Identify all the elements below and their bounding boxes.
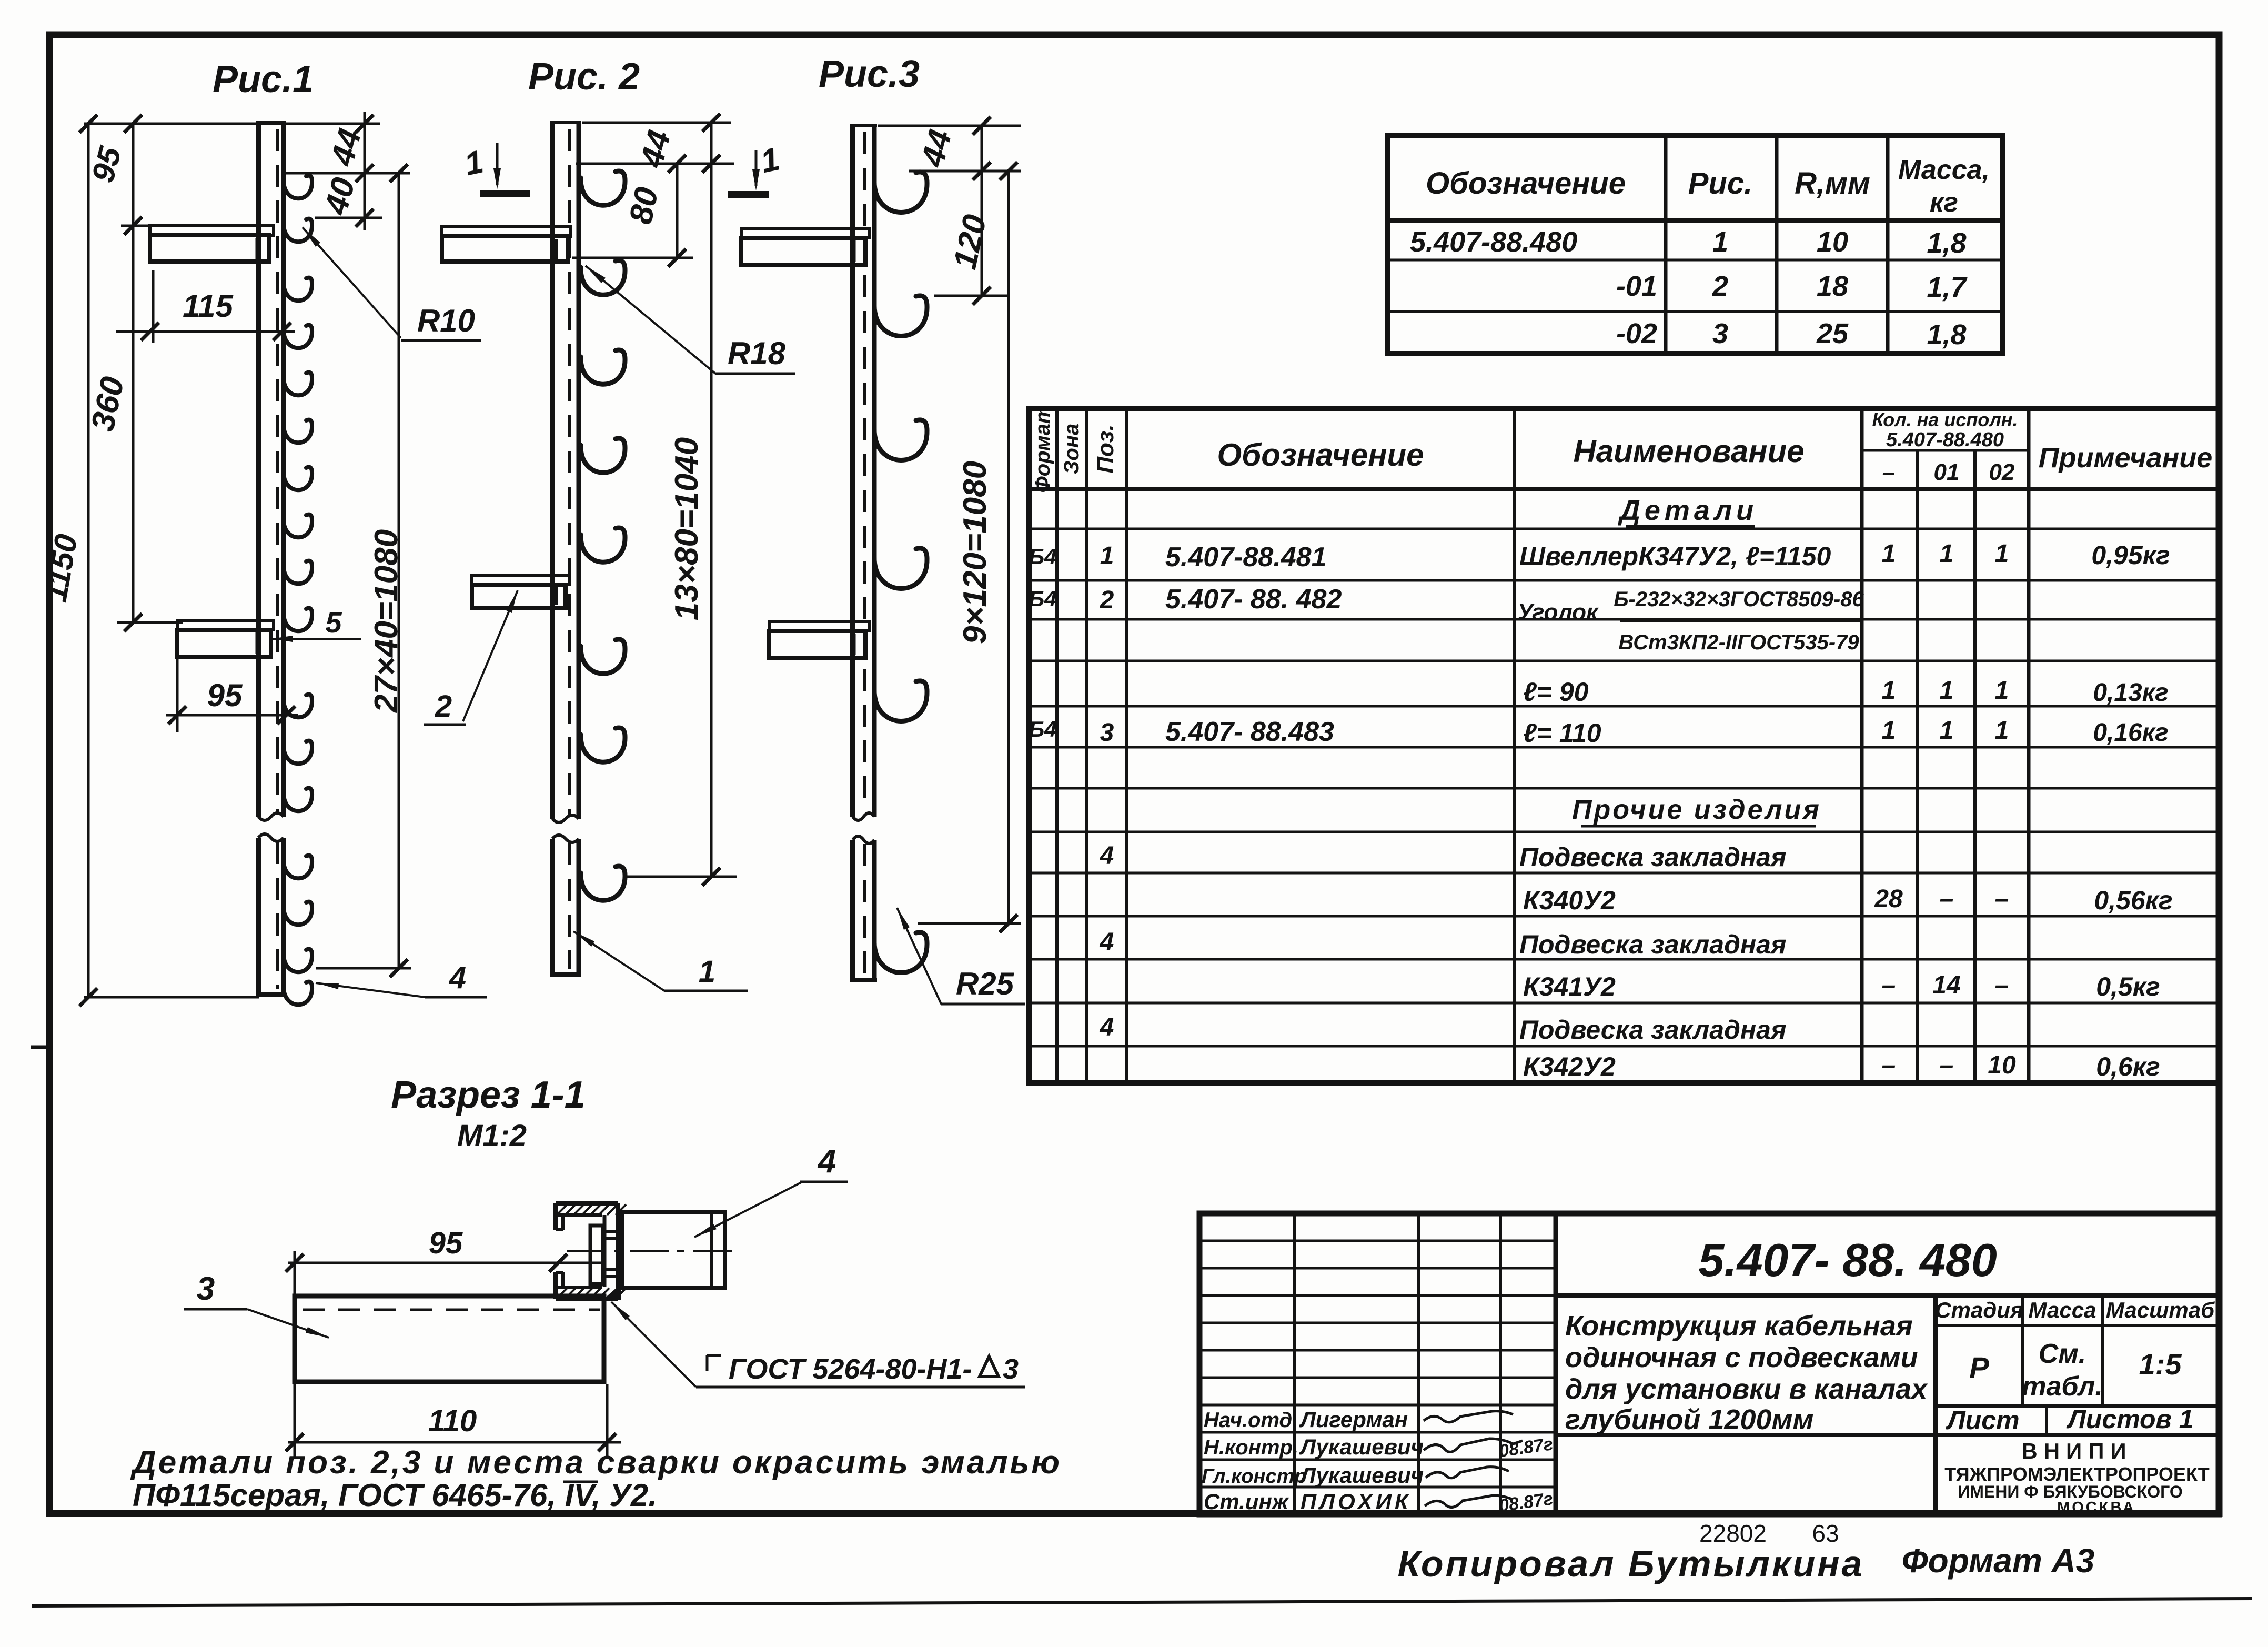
svg-text:R25: R25 (956, 966, 1015, 1001)
spec row 1: channel K347U2 (1029, 540, 2170, 573)
svg-text:ℓ= 90: ℓ= 90 (1523, 677, 1589, 707)
section mark 1-1 (right) (728, 141, 783, 195)
svg-text:–: – (1882, 459, 1895, 485)
svg-text:ИМЕНИ Ф БЯКУБОВСКОГО: ИМЕНИ Ф БЯКУБОВСКОГО (1958, 1482, 2183, 1501)
fig1 label 4 leader (316, 983, 487, 997)
title block signature rows labels (1202, 1409, 1307, 1514)
svg-text:4: 4 (1100, 1013, 1114, 1041)
svg-text:R18: R18 (728, 336, 786, 371)
svg-text:1: 1 (1712, 226, 1728, 258)
svg-text:для установки в каналах: для установки в каналах (1565, 1373, 1928, 1405)
svg-text:1: 1 (1940, 677, 1954, 705)
svg-text:Лукашевич: Лукашевич (1299, 1434, 1424, 1459)
svg-text:18: 18 (1817, 270, 1848, 302)
fig1 dimension 115 (116, 270, 295, 343)
svg-text:5.407- 88.483: 5.407- 88.483 (1165, 717, 1334, 747)
svg-text:Кол. на исполн.: Кол. на исполн. (1872, 409, 2018, 430)
svg-text:1: 1 (1995, 717, 2009, 745)
svg-text:1: 1 (1882, 677, 1896, 705)
svg-text:Копировал Бутылкина: Копировал Бутылкина (1398, 1543, 1864, 1584)
spec row Детали (1618, 495, 1758, 526)
svg-text:95: 95 (207, 678, 243, 713)
svg-text:5.407-88.480: 5.407-88.480 (1410, 226, 1577, 258)
fig1 bracket 2 (pos.3): angle bracket (уголок) (177, 620, 274, 657)
title block grid (1199, 1213, 2219, 1514)
svg-text:Ст.инж: Ст.инж (1204, 1489, 1289, 1514)
title block mass value См.табл. (2022, 1339, 2102, 1402)
fig1: channel post (side view) (256, 123, 286, 995)
spec row 4c: Подвеска закладная (1100, 1013, 1787, 1045)
svg-text:Р: Р (1969, 1351, 1989, 1384)
weld designation leader (611, 1302, 1025, 1387)
section label 3 leader (184, 1309, 329, 1338)
title block signature rows names (1299, 1407, 1424, 1514)
note line 2 (133, 1478, 657, 1513)
svg-text:0,6кг: 0,6кг (2096, 1052, 2160, 1081)
svg-text:5.407-88.480: 5.407-88.480 (1886, 429, 2004, 451)
svg-text:10: 10 (1988, 1051, 2016, 1079)
spec header Кол. на исполн. (1872, 409, 2018, 485)
svg-text:1: 1 (1882, 717, 1896, 745)
top-right table row 2 (1616, 270, 1968, 303)
weld designation text ГОСТ 5264-80-Н1-∆3 (707, 1353, 1019, 1385)
svg-text:Конструкция кабельная: Конструкция кабельная (1565, 1310, 1913, 1342)
svg-text:Б-232×32×3ГОСТ8509-86: Б-232×32×3ГОСТ8509-86 (1614, 588, 1864, 611)
svg-text:Масштаб: Масштаб (2106, 1298, 2215, 1322)
section dim 95 (286, 1251, 605, 1457)
svg-text:Формат А3: Формат А3 (1902, 1542, 2095, 1580)
hooks fig2 (R18) (581, 171, 625, 900)
svg-text:Лукашевич: Лукашевич (1299, 1463, 1424, 1488)
stamp number 22802 63 (1699, 1520, 1839, 1547)
svg-text:Н.контр.: Н.контр. (1204, 1436, 1298, 1459)
fig3 bracket 2 (pos.3): angle bracket (уголок) (769, 621, 869, 658)
specification table grid (1029, 408, 2219, 1083)
svg-text:Стадия: Стадия (1935, 1298, 2023, 1322)
svg-text:9×120=1080: 9×120=1080 (957, 461, 993, 644)
svg-text:5.407- 88. 482: 5.407- 88. 482 (1165, 584, 1342, 615)
svg-text:К342У2: К342У2 (1523, 1052, 1616, 1081)
svg-text:1: 1 (1940, 540, 1954, 568)
fig2 dims 44 / 80 (572, 114, 737, 886)
svg-text:0,56кг: 0,56кг (2094, 886, 2172, 915)
svg-text:Детали поз. 2,3 и места сварк: Детали поз. 2,3 и места сварки окрасить … (130, 1444, 1062, 1481)
svg-text:Поз.: Поз. (1093, 424, 1118, 473)
fig1 dimension 1150 vertical line (79, 115, 380, 1006)
svg-text:Уголок: Уголок (1517, 599, 1599, 625)
spec row К340У2 (1523, 885, 2173, 915)
spec row Прочие изделия (1572, 795, 1821, 826)
svg-text:ТЯЖПРОМЭЛЕКТРОПРОЕКТ: ТЯЖПРОМЭЛЕКТРОПРОЕКТ (1944, 1463, 2210, 1485)
svg-text:Масса: Масса (2029, 1298, 2096, 1322)
svg-text:–: – (1995, 971, 2009, 999)
fig2 label 2 leader (424, 590, 518, 725)
svg-text:Гл.констр: Гл.констр (1202, 1465, 1307, 1488)
fig1 label R10 leader (303, 227, 481, 340)
fig1 dimension 95 top / 360 line (117, 115, 183, 631)
svg-text:–: – (1940, 1051, 1954, 1079)
fig2 label 1 leader (573, 931, 748, 991)
svg-text:4: 4 (1100, 842, 1114, 870)
svg-text:02: 02 (1989, 459, 2015, 485)
fig3: channel post (side view) (850, 126, 877, 980)
svg-text:Подвеска закладная: Подвеска закладная (1519, 930, 1786, 959)
title block signatures (squiggles) (1424, 1411, 1523, 1508)
svg-text:95: 95 (429, 1226, 463, 1260)
spec row 4b: Подвеска закладная (1100, 928, 1787, 959)
section dim 110 (286, 1384, 621, 1459)
spec row К342У2 (1523, 1051, 2160, 1081)
svg-text:Формат: Формат (1031, 405, 1054, 493)
spec row l=90 (1523, 677, 2169, 707)
svg-text:4: 4 (817, 1143, 836, 1180)
svg-text:ШвеллерК347У2, ℓ=1150: ШвеллерК347У2, ℓ=1150 (1519, 541, 1831, 571)
hooks fig3 (R25) (874, 172, 927, 973)
svg-text:5.407- 88. 480: 5.407- 88. 480 (1698, 1234, 1997, 1286)
svg-text:Обозначение: Обозначение (1426, 166, 1626, 200)
spec row 4a: Подвеска закладная (1100, 842, 1787, 872)
svg-text:2: 2 (1712, 270, 1728, 302)
svg-text:1,7: 1,7 (1927, 272, 1968, 303)
fig2 bracket 2 (pos.3): angle bracket (уголок) (472, 575, 569, 608)
svg-text:3: 3 (1100, 719, 1114, 747)
fig2 bracket 1 (pos.2): angle bracket (уголок) (442, 227, 571, 262)
svg-text:0,95кг: 0,95кг (2091, 540, 2170, 570)
svg-text:1: 1 (1940, 717, 1954, 745)
fig1 dimension 27x40=1080 line (316, 164, 411, 977)
section label 4 leader (694, 1182, 848, 1237)
svg-text:Листов 1: Листов 1 (2067, 1404, 2194, 1434)
svg-text:ПЛОХИК: ПЛОХИК (1301, 1489, 1412, 1514)
fig2 label R18 leader (586, 266, 795, 374)
svg-text:4: 4 (449, 961, 466, 995)
svg-text:2: 2 (435, 689, 452, 724)
svg-text:80: 80 (622, 184, 666, 227)
svg-text:Зона: Зона (1060, 424, 1083, 475)
svg-text:ВСт3КП2-IIГОСТ535-79: ВСт3КП2-IIГОСТ535-79 (1618, 631, 1859, 654)
svg-text:01: 01 (1934, 459, 1960, 485)
svg-text:1: 1 (1995, 677, 2009, 705)
fig3 label R25 leader (897, 908, 1025, 1004)
top-right table: mass per variant (1388, 135, 2003, 354)
spec row 2: angle part (1029, 584, 1864, 654)
svg-text:1:5: 1:5 (2139, 1348, 2182, 1381)
spec row К341У2 (1523, 971, 2160, 1001)
section hatching of channel flanges (557, 1204, 626, 1299)
svg-text:Б4: Б4 (1029, 586, 1056, 611)
svg-text:1: 1 (1882, 540, 1896, 568)
top-right table header texts (1426, 155, 1990, 218)
svg-text:2: 2 (1100, 586, 1114, 614)
fig1 dimensions 44 and 40 (282, 112, 410, 230)
section suspension hook plate inside channel (590, 1226, 622, 1284)
fig1 dimension 95 (middle, bracket offset) (166, 659, 298, 732)
svg-text:кг: кг (1930, 187, 1958, 218)
top-right table row 1 (1410, 226, 1967, 259)
svg-text:ГОСТ 5264-80-Н1-: ГОСТ 5264-80-Н1- (729, 1353, 972, 1385)
svg-text:-02: -02 (1616, 318, 1657, 349)
title block Стадия/Масса/Масштаб headers (1935, 1298, 2215, 1322)
svg-text:Рис. 2: Рис. 2 (528, 56, 640, 98)
svg-text:См.: См. (2039, 1339, 2086, 1369)
svg-text:ВНИПИ: ВНИПИ (2021, 1439, 2132, 1463)
svg-text:Разрез 1-1: Разрез 1-1 (391, 1074, 586, 1116)
title block Лист / Листов 1 (1946, 1404, 2193, 1435)
title block organization ВНИПИ (1944, 1439, 2210, 1516)
svg-text:К341У2: К341У2 (1523, 972, 1616, 1001)
svg-text:Рис.: Рис. (1688, 166, 1753, 200)
svg-text:Прочие изделия: Прочие изделия (1572, 795, 1821, 825)
top-right table row 3 (1616, 318, 1967, 350)
svg-text:Детали: Детали (1618, 495, 1758, 526)
svg-text:1: 1 (1100, 542, 1114, 570)
svg-text:Лист: Лист (1946, 1405, 2019, 1435)
section mark 1-1 (left) (461, 143, 530, 194)
svg-text:-01: -01 (1616, 270, 1657, 302)
svg-text:3: 3 (1003, 1353, 1019, 1385)
left margin centering tick (31, 1046, 51, 1049)
spec row 3: l=110 (1029, 717, 2168, 748)
svg-text:1: 1 (699, 955, 715, 989)
svg-text:Рис.1: Рис.1 (213, 58, 314, 101)
svg-text:табл.: табл. (2022, 1371, 2102, 1402)
svg-text:1: 1 (1995, 540, 2009, 568)
fig3 bracket 1 (pos.2): angle bracket (уголок) (741, 228, 869, 265)
section weld point (603, 1284, 621, 1300)
svg-text:одиночная с подвесками: одиночная с подвесками (1565, 1342, 1918, 1373)
svg-text:К340У2: К340У2 (1523, 886, 1616, 915)
svg-text:Масса,: Масса, (1898, 155, 1990, 185)
svg-text:28: 28 (1874, 885, 1903, 913)
svg-text:3: 3 (197, 1271, 215, 1307)
svg-text:5: 5 (325, 606, 342, 639)
svg-text:Рис.3: Рис.3 (819, 53, 920, 95)
section channel cross-section (part 1) (556, 1203, 618, 1299)
svg-text:Б4: Б4 (1029, 544, 1056, 569)
svg-text:М1:2: М1:2 (457, 1119, 527, 1153)
svg-text:МОСКВА: МОСКВА (2057, 1499, 2136, 1516)
section part 4: pipe (622, 1212, 725, 1288)
hooks fig1 (R10) (284, 176, 312, 1005)
svg-text:0,13кг: 0,13кг (2093, 679, 2168, 707)
svg-text:4: 4 (1100, 928, 1114, 956)
svg-text:25: 25 (1816, 318, 1849, 349)
svg-text:110: 110 (428, 1404, 477, 1438)
svg-text:Б4: Б4 (1029, 717, 1056, 741)
svg-text:5.407-88.481: 5.407-88.481 (1165, 542, 1327, 573)
section part 3: flat bar (295, 1296, 604, 1382)
svg-text:Обозначение: Обозначение (1217, 437, 1424, 473)
svg-text:14: 14 (1932, 971, 1960, 999)
svg-text:1,8: 1,8 (1927, 319, 1966, 350)
svg-text:Лигерман: Лигерман (1299, 1407, 1408, 1432)
svg-text:–: – (1995, 885, 2009, 913)
svg-text:3: 3 (1712, 318, 1728, 349)
svg-text:115: 115 (183, 288, 234, 324)
svg-text:Подвеска закладная: Подвеска закладная (1519, 1015, 1786, 1045)
svg-text:Подвеска закладная: Подвеска закладная (1519, 842, 1786, 872)
svg-text:10: 10 (1817, 226, 1848, 258)
svg-text:глубиной 1200мм: глубиной 1200мм (1565, 1404, 1813, 1435)
svg-text:–: – (1882, 1051, 1896, 1079)
svg-text:0,16кг: 0,16кг (2093, 719, 2168, 747)
svg-text:1,8: 1,8 (1927, 227, 1966, 259)
svg-text:R,мм: R,мм (1795, 166, 1870, 200)
fig3 dims 44 / 120 (878, 117, 1021, 932)
fig1 label 5 leader (271, 636, 361, 642)
svg-text:ℓ= 110: ℓ= 110 (1523, 718, 1601, 748)
bottom rule line (32, 1599, 2252, 1606)
svg-text:0,5кг: 0,5кг (2096, 972, 2160, 1001)
section centerline (567, 1250, 738, 1252)
fig1 bracket 1 (pos.2): angle bracket (уголок) (150, 226, 274, 262)
svg-text:27×40=1080: 27×40=1080 (368, 529, 405, 713)
fig2: channel post (side view) (550, 123, 581, 975)
svg-text:Нач.отд.: Нач.отд. (1204, 1409, 1298, 1432)
svg-text:Примечание: Примечание (2039, 442, 2213, 474)
title block dates 08.87 (1498, 1434, 1555, 1516)
svg-text:Наименование: Наименование (1573, 434, 1804, 469)
svg-text:–: – (1940, 885, 1954, 913)
svg-text:–: – (1882, 971, 1896, 999)
svg-text:13×80=1040: 13×80=1040 (669, 437, 705, 620)
svg-text:R10: R10 (417, 303, 475, 338)
